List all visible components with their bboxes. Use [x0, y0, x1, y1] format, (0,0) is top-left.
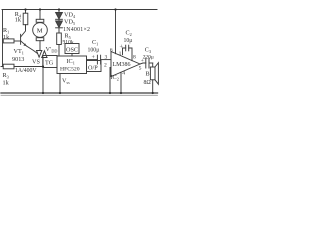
svg-text:1A/400V: 1A/400V: [15, 68, 37, 74]
node dot bottom VS: [42, 92, 44, 94]
svg-text:V′DD: V′DD: [46, 46, 58, 54]
svg-text:B: B: [146, 71, 150, 78]
wire VS cathode to bottom rail: [42, 67, 44, 94]
svg-text:2: 2: [104, 63, 107, 69]
svg-text:8: 8: [133, 55, 136, 61]
capacitor C2 loop pins 1-8: [123, 48, 126, 55]
capacitor C3: [145, 58, 147, 68]
svg-text:HFC520: HFC520: [60, 66, 80, 72]
svg-text:LM386: LM386: [113, 62, 131, 68]
wire top rail: [2, 9, 157, 11]
thyristor VS: [37, 50, 42, 52]
svg-text:IC2: IC2: [111, 74, 119, 82]
op-amp IC2 LM386 triangle: [111, 52, 140, 77]
node dot top rail R4: [24, 8, 26, 10]
svg-text:1k: 1k: [3, 80, 10, 87]
node dot top rail pin6: [114, 8, 116, 10]
svg-text:VT1: VT1: [14, 48, 24, 56]
svg-text:C3: C3: [145, 47, 151, 55]
wire bottom rail second line: [1, 94, 158, 96]
svg-text:4: 4: [122, 71, 125, 77]
node dot bottom Vss: [59, 92, 61, 94]
node dot R3 junction: [42, 65, 44, 67]
svg-text:IC1: IC1: [67, 58, 75, 66]
svg-text:VS: VS: [32, 59, 40, 66]
svg-text:Vss: Vss: [62, 78, 70, 86]
svg-text:3: 3: [105, 55, 108, 61]
wire pin2 to ground: [110, 68, 111, 94]
node dot bottom speaker: [152, 92, 154, 94]
capacitor C1: [87, 59, 97, 61]
svg-text:8Ω: 8Ω: [144, 80, 152, 86]
resistor R3: [1, 66, 3, 68]
node dot top rail diodes: [58, 8, 60, 10]
resistor R1: [2, 40, 5, 42]
svg-text:1k: 1k: [15, 17, 22, 24]
svg-text:C2: C2: [126, 30, 132, 38]
diode VD4: [58, 10, 60, 13]
node dot bottom pin4: [120, 92, 122, 94]
svg-text:VD5: VD5: [64, 19, 75, 27]
resistor R4: [25, 10, 27, 14]
wire bottom rail: [1, 92, 158, 94]
svg-text:R3: R3: [3, 72, 9, 80]
wire pin6 supply: [115, 10, 117, 54]
transistor VT1: [20, 34, 22, 44]
svg-text:C1: C1: [92, 39, 98, 47]
svg-text:TG: TG: [45, 60, 54, 67]
box OSC: [65, 44, 79, 54]
svg-text:6: 6: [110, 47, 113, 53]
wire pin4 to ground: [120, 72, 122, 93]
svg-text:5: 5: [139, 66, 142, 72]
svg-text:10μ: 10μ: [124, 38, 133, 44]
svg-text:100μ: 100μ: [88, 48, 100, 54]
svg-text:1: 1: [119, 51, 122, 57]
node dot top rail motor: [39, 8, 41, 10]
speaker B: [150, 67, 155, 80]
box TG: [43, 56, 57, 68]
svg-text:910k: 910k: [63, 40, 74, 46]
svg-text:9013: 9013: [12, 56, 24, 63]
wire left rail: [2, 10, 4, 67]
svg-text:M: M: [37, 28, 43, 35]
motor M: [33, 23, 48, 38]
resistor R5: [57, 33, 62, 45]
box O/P: [87, 61, 102, 72]
svg-text:O/P: O/P: [88, 65, 98, 72]
box IC1 main: [57, 56, 87, 74]
node dot bottom pin2: [109, 92, 111, 94]
svg-text:220μ: 220μ: [143, 54, 154, 60]
svg-text:1k: 1k: [3, 34, 10, 41]
svg-text:+: +: [141, 58, 144, 64]
wire Vss pin: [59, 74, 61, 94]
svg-text:OSC: OSC: [66, 47, 78, 54]
wire output pin5: [140, 63, 146, 64]
diode VD5: [56, 21, 63, 28]
